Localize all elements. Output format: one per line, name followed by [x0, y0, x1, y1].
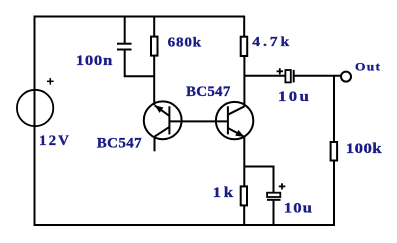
- svg-text:12V: 12V: [39, 133, 69, 149]
- capacitor C2 10u coupling (polarized): [285, 70, 290, 82]
- wire top rail: [34, 16, 246, 18]
- wire 4.7k top lead: [243, 16, 245, 37]
- svg-text:100n: 100n: [76, 53, 113, 69]
- svg-text:100k: 100k: [346, 141, 382, 157]
- svg-text:10u: 10u: [284, 200, 312, 216]
- resistor R4 1k: [241, 186, 247, 205]
- transistor Q1 BC547 (rotated 180): [144, 101, 182, 139]
- wire emitter branch to bottom 10u cap: [244, 167, 273, 194]
- wire 100k bottom lead: [333, 160, 335, 226]
- resistor R2 4.7k: [241, 37, 248, 56]
- wire Q1 collector stub: [154, 137, 156, 152]
- wire 1k bottom lead: [243, 205, 245, 226]
- terminal Out circle: [341, 72, 351, 82]
- transistor Q2 BC547: [216, 102, 253, 139]
- wire 680k top lead: [153, 16, 155, 37]
- plus sign of C2: [277, 68, 283, 74]
- svg-text:Out: Out: [355, 60, 381, 73]
- wire Q2 emitter to 1k: [243, 137, 245, 188]
- Q2 emitter arrowhead: [235, 130, 244, 137]
- wire 100n top lead: [124, 16, 126, 43]
- wire left vertical (through 12V source): [34, 16, 36, 227]
- svg-text:10u: 10u: [278, 89, 309, 105]
- plus sign of C3: [279, 183, 286, 189]
- svg-text:BC547: BC547: [97, 136, 142, 152]
- wire 680k bottom lead to Q1 emitter: [153, 55, 155, 105]
- plus sign of 12V source: [47, 78, 54, 85]
- wire bottom 10u cap to bottom rail: [273, 200, 275, 226]
- wire bottom rail: [34, 224, 336, 226]
- svg-text:BC547: BC547: [186, 84, 231, 100]
- capacitor C1 100n plates: [117, 44, 132, 50]
- resistor R3 100k: [331, 142, 338, 161]
- Q1 emitter arrowhead: [155, 105, 164, 113]
- svg-text:4.7k: 4.7k: [252, 35, 290, 50]
- svg-text:680k: 680k: [168, 35, 202, 50]
- wire 100n bottom lead to node A: [125, 50, 155, 76]
- wire output node to 10u coupling cap: [244, 75, 285, 77]
- wire 10u cap to Out terminal: [294, 75, 341, 77]
- resistor R1 680k: [151, 37, 158, 56]
- wire 4.7k bottom lead to Q2 collector: [243, 56, 245, 107]
- svg-text:1k: 1k: [213, 185, 234, 201]
- wire branch down to 100k: [333, 76, 335, 143]
- capacitor C3 10u bypass (polarized): [267, 193, 280, 197]
- wire Q1 base to Q2 base: [169, 120, 228, 122]
- voltage source V1 12V circle: [17, 90, 53, 126]
